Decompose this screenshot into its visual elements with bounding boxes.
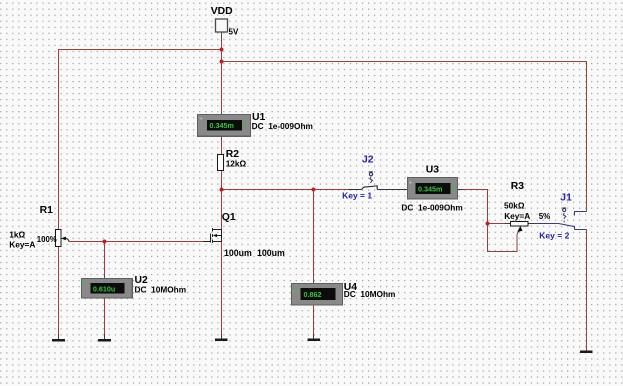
svg-text:Key=A: Key=A: [504, 211, 530, 221]
svg-text:R1: R1: [40, 205, 54, 216]
wire R1 wiper to gate: [65, 238, 203, 241]
gate bar: [210, 233, 212, 242]
svg-text:R3: R3: [511, 181, 525, 192]
wire U2 to ground: [104, 298, 106, 334]
drain lead: [213, 229, 222, 231]
svg-text:100%: 100%: [37, 235, 57, 244]
svg-text:J1: J1: [560, 192, 572, 203]
svg-text:+: +: [409, 180, 413, 187]
ground U4: [308, 339, 321, 342]
wire J2 to U3: [377, 189, 407, 191]
svg-text:5%: 5%: [539, 212, 551, 221]
svg-text:0.345m: 0.345m: [210, 121, 234, 130]
gate lead: [203, 241, 211, 243]
wire VDD to junction: [221, 41, 223, 62]
right vertical tie: [221, 230, 223, 242]
switch J2: [349, 172, 378, 190]
svg-text:+: +: [199, 115, 203, 122]
wire J1 bottom to ground: [575, 229, 587, 231]
transistor Q1 (NMOS): [203, 228, 222, 243]
wire R2 to node D: [221, 171, 223, 190]
svg-text:12kΩ: 12kΩ: [226, 158, 247, 168]
switch J1: [559, 208, 587, 230]
potentiometer R3: [511, 222, 529, 232]
svg-text:VDD: VDD: [211, 6, 233, 17]
wire R3 right lead: [528, 223, 534, 225]
wire U4 to ground: [313, 305, 315, 334]
svg-text:U3: U3: [426, 165, 440, 176]
ammeter U1: [198, 115, 251, 137]
ground U2: [98, 339, 111, 342]
ammeter U3: [408, 178, 458, 200]
wire node D to Q1 drain: [221, 190, 223, 231]
ground J1: [580, 350, 593, 353]
svg-text:Key = 2: Key = 2: [539, 231, 569, 241]
node junction drain net: [220, 188, 224, 192]
wire to U1: [221, 62, 223, 111]
svg-text:5V: 5V: [229, 27, 239, 36]
voltmeter U4: [292, 284, 343, 305]
svg-text:DC 1e-009Ohm: DC 1e-009Ohm: [401, 203, 462, 213]
svg-text:0.862: 0.862: [304, 290, 322, 299]
wire U1 to R2: [221, 136, 223, 141]
wire top-right horizontal: [222, 62, 587, 212]
svg-text:Key = 1: Key = 1: [342, 190, 372, 200]
node junction U4 tap: [312, 188, 316, 192]
node junction VDD-left: [220, 48, 224, 52]
svg-text:50kΩ: 50kΩ: [504, 201, 525, 211]
ground R1: [52, 339, 65, 342]
svg-text:100um: 100um: [257, 248, 285, 258]
wire node E to R3: [488, 223, 506, 225]
svg-text:Q1: Q1: [222, 212, 236, 223]
body lead: [214, 235, 222, 237]
resistor R2: [218, 155, 224, 171]
wire U4 branch: [313, 190, 315, 280]
wire Q1 source to ground: [221, 242, 223, 335]
wire R3 wiper loop: [488, 224, 520, 252]
potentiometer R1: [56, 230, 66, 247]
svg-text:J2: J2: [362, 154, 374, 165]
svg-text:0.345m: 0.345m: [418, 184, 442, 193]
wire top-left horizontal net VDD: [58, 49, 222, 51]
wire U3 to corner: [458, 189, 464, 191]
channel segments: [212, 228, 214, 231]
svg-text:Key=A: Key=A: [9, 240, 35, 250]
node junction R3 left: [486, 222, 490, 226]
body arrow Q1: [213, 234, 217, 237]
svg-text:DC 10MOhm: DC 10MOhm: [344, 289, 396, 299]
svg-text:100um: 100um: [224, 248, 252, 258]
svg-text:1kΩ: 1kΩ: [9, 230, 25, 240]
wire left vertical to R1: [58, 50, 60, 229]
wire VDD lead: [221, 32, 223, 42]
voltmeter U2: [82, 279, 133, 299]
wire R1 bottom to ground: [58, 246, 60, 334]
svg-text:DC 1e-009Ohm: DC 1e-009Ohm: [252, 121, 313, 131]
power VDD symbol: [211, 6, 239, 36]
wire U2 branch: [104, 242, 106, 275]
source lead: [213, 241, 222, 243]
ground Q1: [215, 339, 228, 342]
svg-text:DC 10MOhm: DC 10MOhm: [135, 284, 187, 294]
node junction VDD-right: [220, 60, 224, 64]
wire R3 to J1 blade: [534, 223, 559, 225]
wire node D to J2: [222, 189, 349, 191]
svg-text:0.610u: 0.610u: [93, 284, 115, 293]
node junction R1 wiper / U2: [103, 240, 107, 244]
